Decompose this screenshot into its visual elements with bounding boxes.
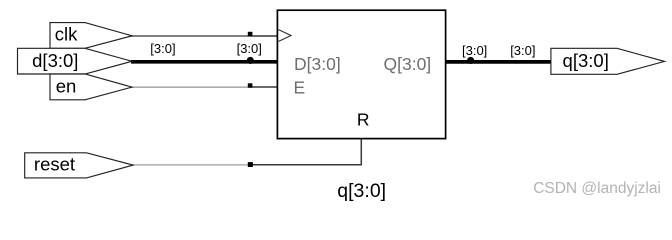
svg-text:R: R xyxy=(357,110,370,130)
port en xyxy=(50,74,132,100)
svg-text:q[3:0]: q[3:0] xyxy=(563,50,609,71)
svg-text:D[3:0]: D[3:0] xyxy=(294,54,341,74)
junction square on en wire xyxy=(248,83,253,87)
wire clk net xyxy=(131,35,250,37)
wire en net xyxy=(131,86,250,88)
wire reset net xyxy=(132,164,250,166)
junction square on reset wire xyxy=(248,162,253,167)
svg-text:[3:0]: [3:0] xyxy=(462,43,487,58)
svg-text:reset: reset xyxy=(34,154,75,175)
port q[3:0] output xyxy=(551,48,665,74)
wire d bus xyxy=(131,60,278,64)
junction square on clk wire xyxy=(248,32,253,36)
wire q bus xyxy=(445,60,552,64)
register block U1 xyxy=(277,10,445,138)
wire en to E pin xyxy=(250,86,278,88)
svg-text:CSDN @landyjzlai: CSDN @landyjzlai xyxy=(533,180,661,197)
svg-text:q[3:0]: q[3:0] xyxy=(337,180,386,202)
svg-text:en: en xyxy=(56,76,77,97)
svg-text:E: E xyxy=(294,77,306,97)
junction dot on q bus xyxy=(467,57,474,64)
port reset xyxy=(25,153,133,178)
junction dot on d bus xyxy=(247,57,254,64)
port d[3:0] xyxy=(18,48,133,74)
svg-text:[3:0]: [3:0] xyxy=(150,41,175,56)
clock edge triangle xyxy=(278,30,291,42)
svg-text:d[3:0]: d[3:0] xyxy=(32,50,78,71)
svg-text:[3:0]: [3:0] xyxy=(237,41,262,56)
port clk xyxy=(50,23,132,49)
svg-text:Q[3:0]: Q[3:0] xyxy=(384,54,432,74)
svg-text:[3:0]: [3:0] xyxy=(510,43,535,58)
wire clk to C pin xyxy=(250,35,278,37)
svg-text:clk: clk xyxy=(55,24,78,45)
wire reset to R pin xyxy=(250,138,361,165)
